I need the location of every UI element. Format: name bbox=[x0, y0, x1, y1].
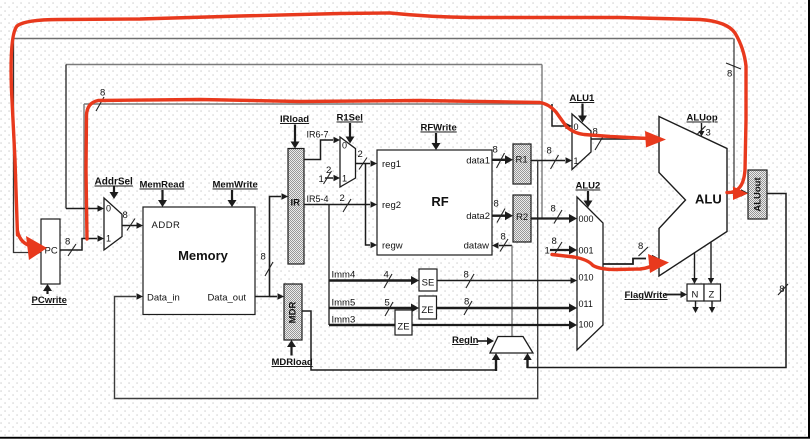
svg-text:Z: Z bbox=[709, 290, 715, 301]
svg-text:MemRead: MemRead bbox=[140, 180, 185, 191]
svg-text:reg1: reg1 bbox=[382, 159, 401, 170]
svg-text:Memory: Memory bbox=[178, 248, 229, 263]
svg-text:ALUout: ALUout bbox=[752, 177, 763, 212]
svg-text:data1: data1 bbox=[466, 156, 490, 167]
svg-text:SE: SE bbox=[422, 278, 435, 289]
svg-text:1: 1 bbox=[106, 234, 111, 244]
svg-text:5: 5 bbox=[385, 298, 390, 309]
svg-text:IR5-4: IR5-4 bbox=[307, 194, 329, 204]
svg-text:010: 010 bbox=[579, 273, 594, 283]
svg-text:ZE: ZE bbox=[397, 322, 409, 333]
svg-text:PCwrite: PCwrite bbox=[32, 295, 67, 306]
svg-text:Data_out: Data_out bbox=[207, 293, 246, 304]
svg-text:ALU2: ALU2 bbox=[576, 181, 601, 192]
svg-text:RF: RF bbox=[431, 194, 448, 209]
svg-text:1: 1 bbox=[342, 174, 347, 184]
svg-text:MDRload: MDRload bbox=[272, 357, 313, 368]
svg-text:MemWrite: MemWrite bbox=[213, 180, 258, 191]
svg-text:R1: R1 bbox=[516, 155, 528, 166]
svg-text:2: 2 bbox=[326, 165, 331, 176]
svg-text:8: 8 bbox=[551, 204, 556, 215]
svg-text:8: 8 bbox=[464, 270, 469, 281]
svg-text:1: 1 bbox=[574, 156, 579, 166]
svg-text:AddrSel: AddrSel bbox=[95, 177, 134, 188]
svg-text:Data_in: Data_in bbox=[147, 293, 180, 304]
svg-text:8: 8 bbox=[493, 145, 498, 156]
svg-text:R1Sel: R1Sel bbox=[337, 113, 363, 124]
svg-text:ALU1: ALU1 bbox=[570, 93, 596, 104]
svg-text:data2: data2 bbox=[466, 211, 490, 222]
svg-text:0: 0 bbox=[342, 141, 347, 151]
svg-text:Imm4: Imm4 bbox=[332, 270, 356, 281]
svg-text:R2: R2 bbox=[516, 212, 528, 223]
svg-text:FlagWrite: FlagWrite bbox=[625, 290, 668, 301]
svg-text:001: 001 bbox=[579, 246, 594, 256]
svg-text:4: 4 bbox=[384, 270, 389, 281]
svg-text:2: 2 bbox=[340, 193, 345, 204]
svg-text:8: 8 bbox=[123, 210, 128, 221]
svg-text:8: 8 bbox=[547, 146, 552, 157]
svg-text:8: 8 bbox=[464, 297, 469, 308]
svg-text:8: 8 bbox=[638, 241, 643, 252]
svg-text:8: 8 bbox=[100, 88, 105, 99]
svg-text:dataw: dataw bbox=[464, 241, 489, 252]
svg-text:8: 8 bbox=[552, 236, 557, 247]
svg-text:regw: regw bbox=[382, 241, 403, 252]
svg-text:ALU: ALU bbox=[695, 192, 722, 207]
svg-text:ALUop: ALUop bbox=[687, 113, 718, 124]
svg-text:IR: IR bbox=[291, 198, 301, 209]
svg-text:8: 8 bbox=[494, 199, 499, 210]
svg-text:8: 8 bbox=[727, 69, 732, 80]
svg-text:ADDR: ADDR bbox=[152, 220, 181, 231]
svg-text:RFWrite: RFWrite bbox=[421, 123, 457, 134]
svg-text:8: 8 bbox=[261, 252, 266, 263]
svg-text:100: 100 bbox=[579, 320, 594, 330]
svg-text:reg2: reg2 bbox=[382, 200, 401, 211]
svg-text:000: 000 bbox=[579, 214, 594, 224]
svg-text:0: 0 bbox=[106, 204, 111, 214]
svg-text:1: 1 bbox=[319, 174, 324, 185]
svg-text:IR6-7: IR6-7 bbox=[307, 130, 329, 140]
svg-text:IRload: IRload bbox=[280, 114, 309, 125]
svg-text:3: 3 bbox=[706, 128, 711, 139]
svg-text:8: 8 bbox=[65, 237, 70, 248]
svg-text:RegIn: RegIn bbox=[452, 335, 479, 346]
svg-text:ZE: ZE bbox=[421, 305, 433, 316]
svg-text:N: N bbox=[692, 290, 699, 301]
svg-text:2: 2 bbox=[358, 149, 363, 160]
svg-text:PC: PC bbox=[45, 246, 58, 257]
svg-text:8: 8 bbox=[501, 232, 506, 243]
svg-text:MDR: MDR bbox=[288, 302, 299, 324]
svg-text:1: 1 bbox=[545, 246, 550, 257]
svg-text:011: 011 bbox=[579, 299, 593, 309]
